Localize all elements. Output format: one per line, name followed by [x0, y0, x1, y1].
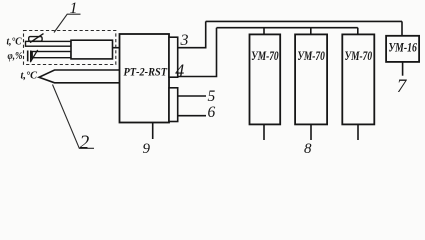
connector block bottom — [169, 88, 178, 122]
wire 6 — [178, 115, 206, 117]
leader line to label 1 — [54, 14, 81, 32]
thermistor element — [29, 37, 42, 42]
capacitor arrow — [30, 50, 37, 62]
dashed enclosure 1 — [24, 31, 116, 65]
svg-text:5: 5 — [208, 88, 216, 105]
svg-text:1: 1 — [70, 0, 78, 17]
svg-text:t,°C: t,°C — [7, 36, 23, 47]
humidity probe body (sensor φ) — [32, 52, 71, 58]
connector block top — [169, 37, 178, 77]
lead 8a — [263, 124, 265, 140]
svg-text:φ,%: φ,% — [8, 51, 23, 62]
thermistor arrow — [30, 34, 44, 43]
drop to УМ-70 no.2 — [310, 28, 312, 35]
wire 3 — [178, 21, 206, 47]
wire transmitter to PT-2-RST — [113, 47, 120, 49]
wire 4 — [178, 28, 217, 77]
amplifier УМ-70 no.3 — [342, 34, 374, 124]
svg-text:4: 4 — [175, 61, 184, 81]
lead 7 — [402, 62, 404, 76]
svg-text:УМ-70: УМ-70 — [345, 48, 373, 63]
capacitor plate 2 — [30, 51, 32, 62]
second bus — [217, 27, 358, 29]
capacitor plate 1 — [27, 51, 29, 62]
transmitter block — [71, 40, 113, 59]
svg-text:УМ-70: УМ-70 — [297, 48, 325, 63]
drop top bus to УМ-16 — [401, 21, 403, 35]
drop to УМ-70 no.1 — [263, 28, 265, 35]
svg-text:3: 3 — [180, 32, 189, 49]
amplifier УМ-70 no.1 — [250, 34, 281, 124]
drop to УМ-70 no.3 — [357, 28, 359, 35]
lead 9 — [152, 123, 154, 140]
svg-text:t,°C: t,°C — [21, 71, 38, 82]
svg-text:2: 2 — [80, 133, 90, 154]
temperature probe 2 (arrow) — [39, 70, 120, 83]
amplifier УМ-70 no.2 — [295, 34, 327, 124]
svg-text:УМ-16: УМ-16 — [388, 40, 417, 55]
svg-text:8: 8 — [304, 141, 312, 154]
svg-text:7: 7 — [397, 76, 408, 97]
thermistor probe body (sensor t) — [26, 41, 72, 46]
top bus — [206, 20, 402, 22]
lead 8c — [357, 124, 359, 140]
svg-text:6: 6 — [208, 104, 216, 121]
wire 5 — [178, 95, 206, 97]
amplifier УМ-16 — [386, 36, 419, 62]
leader line to label 2 — [53, 85, 95, 149]
svg-text:РТ-2-RST: РТ-2-RST — [124, 65, 168, 79]
lead 8b — [310, 124, 312, 140]
PT-2-RST block — [120, 34, 170, 123]
svg-text:9: 9 — [143, 141, 151, 154]
svg-text:УМ-70: УМ-70 — [251, 48, 279, 63]
